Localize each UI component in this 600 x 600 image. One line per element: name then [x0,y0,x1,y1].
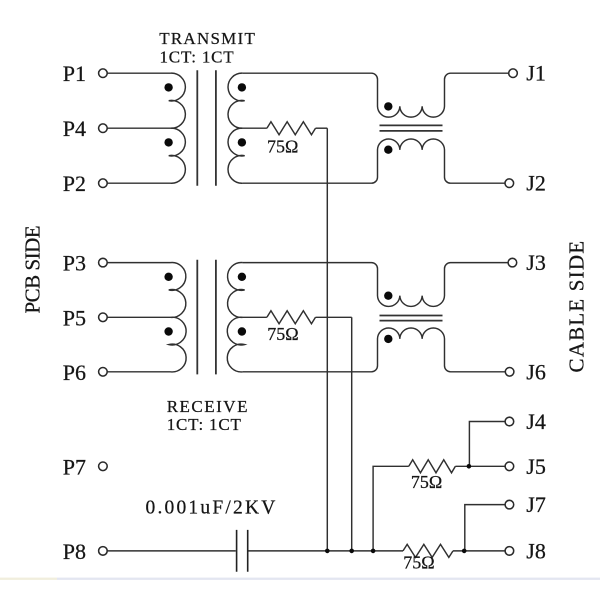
svg-text:P7: P7 [63,454,86,479]
svg-text:P2: P2 [63,171,86,196]
transformer T2 secondary winding [227,263,244,372]
terminal P6 [99,368,108,377]
wire resistor to drop corner [316,316,352,318]
junction at receive drop on P8 bus [349,549,354,554]
resistor 75ohm (receive termination) [267,311,316,324]
junction at J7 branch on P8 bus [462,549,467,554]
terminal P7 [99,462,108,471]
transformer T1 secondary winding [228,73,245,183]
svg-text:TRANSMIT: TRANSMIT [159,29,256,48]
L1 top winding dot [384,102,392,110]
svg-text:P3: P3 [63,251,86,276]
wire resistor to J5 [455,465,505,467]
common-mode choke L1 top winding with wires to T1 and J1 [243,73,509,117]
L2 top winding dot [384,292,392,300]
svg-text:P5: P5 [63,305,86,330]
svg-text:P1: P1 [63,61,86,86]
wire P3 to T2 primary [107,262,170,264]
choke L2 core [380,316,443,321]
T1 secondary dot (upper half) [238,83,246,91]
transformer T1 core [197,70,216,186]
terminal J3 [508,258,517,267]
wire resistor to J8 [453,550,505,552]
page edge strip right [57,578,600,580]
terminal P4 [99,124,108,133]
wire J4 branch [469,422,505,467]
terminal P5 [99,313,108,322]
wire bus riser to J5 resistor [373,466,409,551]
svg-text:J7: J7 [526,492,546,517]
T1 secondary dot (lower half) [238,138,246,146]
common-mode choke L1 bottom winding with wires to T1 and J2 [243,139,505,183]
transformer T2 core [197,260,216,375]
wire T2 secondary center tap to resistor [243,316,267,318]
svg-text:J2: J2 [526,171,546,196]
svg-text:J6: J6 [526,359,546,384]
transformer T2 primary winding [169,263,186,372]
L2 bottom winding dot [384,335,392,343]
resistor 75ohm (transmit termination) [267,122,316,135]
terminal P1 [99,69,108,78]
choke L1 core [380,125,443,130]
junction at J4 branch on J5 wire [467,464,472,469]
svg-text:75Ω: 75Ω [267,137,298,157]
svg-text:75Ω: 75Ω [403,552,434,572]
terminal J2 [505,179,514,188]
wire P1 to T1 primary [107,72,170,74]
terminal J7 [505,500,514,509]
terminal J6 [505,368,514,377]
junction at transmit drop on P8 bus [325,549,330,554]
L1 bottom winding dot [384,146,392,154]
wire vertical drop to P8 bus [351,317,353,551]
junction at J5 riser on P8 bus [371,549,376,554]
wire P4 to T1 primary center tap [107,127,170,129]
wire P6 to T2 primary [107,371,170,373]
wire P8 to capacitor [107,550,236,552]
terminal J4 [505,417,514,426]
T2 secondary dot (lower half) [238,327,246,335]
terminal P2 [99,179,108,188]
svg-text:J1: J1 [526,61,546,86]
common-mode choke L2 top winding with wires to T2 and J3 [243,263,508,307]
T2 primary dot (P3 half) [164,273,172,281]
svg-text:P8: P8 [63,539,86,564]
svg-text:J8: J8 [526,538,546,563]
svg-text:1CT: 1CT: 1CT: 1CT [167,415,242,434]
T2 primary dot (P5 half) [164,327,172,335]
terminal P8 [99,547,108,556]
svg-text:0.001uF/2KV: 0.001uF/2KV [146,498,278,519]
wire P5 to T2 primary center tap [107,316,170,318]
svg-text:75Ω: 75Ω [411,472,442,492]
resistor 75ohm (J5 branch) [409,460,456,473]
svg-text:J5: J5 [526,454,546,479]
svg-text:1CT: 1CT: 1CT: 1CT [160,48,235,67]
wire J7 branch [465,505,505,551]
transformer T1 primary winding [169,73,186,183]
T1 primary dot (P4 half) [164,138,172,146]
capacitor 0.001uF/2KV plates [237,530,248,572]
svg-text:P6: P6 [63,360,86,385]
wire resistor to bottom bus corner [316,127,328,129]
wire vertical drop to P8 bus [326,128,328,551]
terminal J1 [509,69,518,78]
wire P2 to T1 primary [107,182,170,184]
T2 secondary dot (upper half) [238,273,246,281]
page edge strip left [0,578,57,580]
svg-text:RECEIVE: RECEIVE [167,397,249,416]
wire T1 secondary center tap to resistor [243,127,267,129]
T1 primary dot (P1 half) [164,83,172,91]
resistor 75ohm (J8 bus) [403,544,453,557]
svg-text:P4: P4 [63,116,86,141]
wire capacitor to J8 resistor [249,550,404,552]
common-mode choke L2 bottom winding with wires to T2 and J6 [243,328,505,372]
terminal P3 [99,258,108,267]
svg-text:J3: J3 [526,250,546,275]
svg-text:CABLE SIDE: CABLE SIDE [565,240,589,373]
terminal J8 [505,547,514,556]
svg-text:PCB SIDE: PCB SIDE [20,226,44,314]
terminal J5 [505,462,514,471]
svg-text:J4: J4 [526,409,546,434]
svg-text:75Ω: 75Ω [267,324,298,344]
